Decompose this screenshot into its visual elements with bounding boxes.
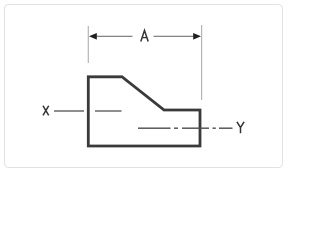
- arrowhead right: [193, 33, 201, 40]
- label Y: [237, 122, 244, 133]
- dimension line A left segment: [96, 35, 133, 37]
- label A: [141, 30, 148, 41]
- extension line left: [87, 26, 89, 63]
- centerline Y (dash-dot): [138, 127, 233, 129]
- reducer body outline: [88, 77, 200, 146]
- centerline X: [54, 110, 122, 112]
- arrowhead left: [89, 33, 97, 40]
- label X: [43, 106, 49, 116]
- card border frame: [5, 5, 283, 168]
- dimension line A right segment: [154, 35, 195, 37]
- extension line right: [201, 25, 203, 100]
